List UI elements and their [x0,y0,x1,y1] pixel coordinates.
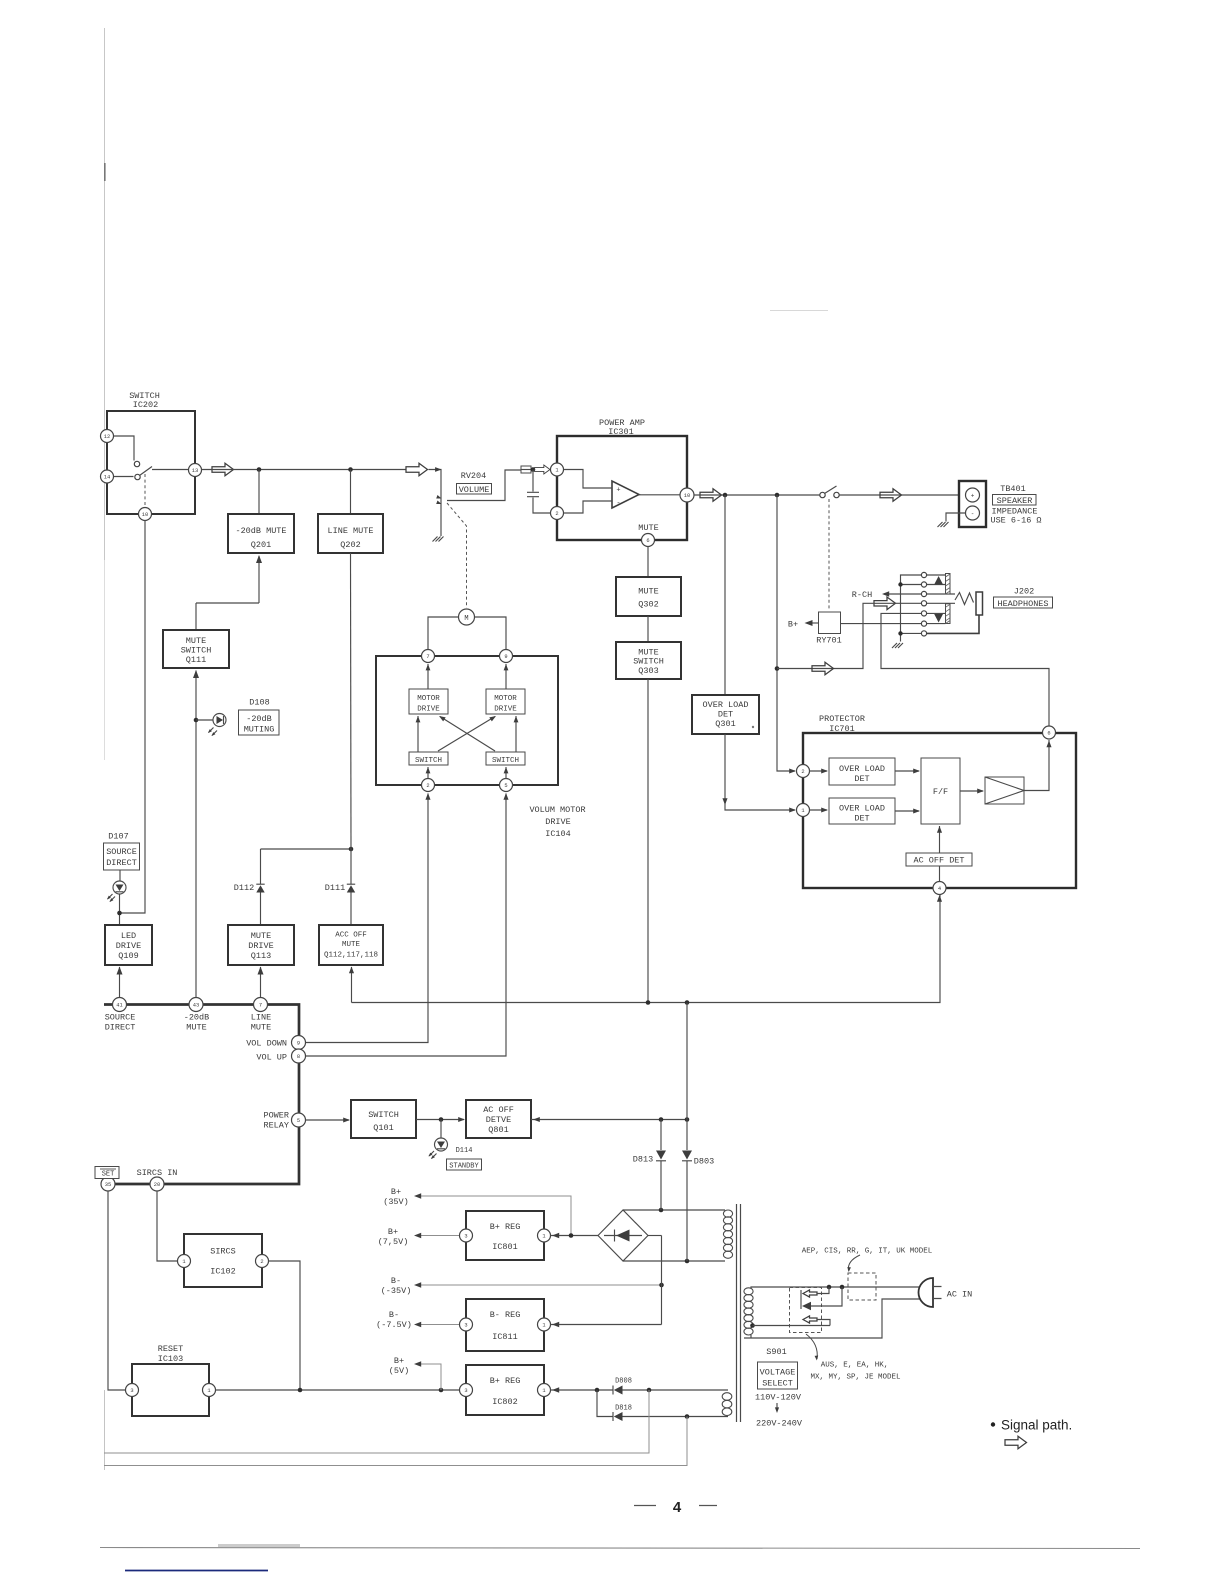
ACC OFF MUTE Q112,117,118 [319,925,383,965]
node selector arrow B [840,1285,845,1290]
wire bridge to IC801 pin 1 [551,1233,599,1238]
node at Q201 tap [257,467,262,472]
node 35 RESET [101,1177,115,1191]
page number [634,1499,717,1516]
wire node 20 to SIRCS [157,1191,178,1261]
VOLTAGE SELECT label [758,1362,798,1389]
wire node 7 up to Q113 [258,967,264,998]
node acc off / D803 [685,1000,690,1005]
svg-text:DRIVE: DRIVE [116,941,142,951]
volum motor drive IC104 label [529,805,585,839]
pin 6 [642,534,655,547]
svg-text:PROTECTOR: PROTECTOR [819,714,865,724]
svg-text:OVER LOAD: OVER LOAD [703,700,749,710]
node D803 [685,1117,690,1122]
svg-text:Q303: Q303 [638,666,658,676]
wire bridge bottom to transformer [623,1260,725,1262]
wire pin 6 to Q302 [647,547,649,578]
switch IC202 label [129,391,160,410]
arrowhead into protector pin 2 [789,768,796,773]
signal path arrow into headphone L contact [874,597,896,610]
SWITCH block R [486,752,525,765]
svg-text:Q201: Q201 [251,540,271,550]
B+ 5V tap [389,1356,441,1390]
svg-text:D813: D813 [633,1155,653,1165]
svg-text:MUTING: MUTING [244,725,275,735]
node 43 -20dB MUTE [184,998,210,1033]
svg-text:MUTE: MUTE [342,941,361,949]
wire IC202 pin 10 down to source-direct LED node [120,521,146,914]
svg-text:HEADPHONES: HEADPHONES [997,599,1048,609]
svg-text:3: 3 [464,1323,467,1329]
svg-text:SIRCS: SIRCS [210,1247,236,1257]
svg-text:1: 1 [801,808,804,814]
AUS model callout [806,1334,901,1382]
pin 3 [460,1229,473,1242]
svg-text:DIRECT: DIRECT [106,858,137,868]
node B+35 [569,1233,574,1238]
svg-text:6: 6 [646,538,649,544]
selector contact C (hollow) [803,1316,830,1326]
svg-text:10: 10 [684,493,690,499]
control bus [104,1005,299,1185]
wire IC802 pin1 to rectifier D808 [551,1387,729,1392]
svg-text:MUTE: MUTE [638,523,658,533]
signal path arrow after pin 10 [700,489,722,502]
node 7 LINE MUTE [251,998,271,1033]
MUTE SWITCH Q303 [616,642,681,679]
svg-text:MUTE: MUTE [186,1023,206,1033]
node to protector [775,493,780,498]
pin 1 [538,1318,551,1331]
svg-text:43: 43 [193,1003,199,1009]
pin 12 [101,430,114,443]
LED D108 [207,714,226,738]
svg-text:1: 1 [207,1388,210,1394]
svg-text:1: 1 [182,1259,185,1265]
svg-text:IC102: IC102 [210,1267,236,1277]
node D803 / bridge [685,1259,690,1264]
svg-text:1: 1 [542,1323,545,1329]
VOLUME label [457,484,492,495]
pin 1 [178,1255,191,1268]
svg-text:B+ REG: B+ REG [490,1376,521,1386]
svg-text:AC OFF DET: AC OFF DET [913,856,964,866]
svg-text:Q101: Q101 [373,1123,393,1133]
LED D107 [106,881,126,903]
signal path arrow before volume [406,463,428,476]
svg-text:RELAY: RELAY [263,1121,289,1131]
node to Q301 [723,493,728,498]
cross wire switch R to motor drive L [438,714,495,751]
svg-text:5: 5 [504,783,507,789]
svg-text:110V-120V: 110V-120V [755,1393,802,1403]
wires M to IC104 pins 7,9 [428,617,506,650]
transformer T901 core [737,1204,741,1422]
pin 10 [139,508,152,521]
wire pin 4 to F/F [937,826,942,882]
svg-text:B+: B+ [788,620,798,630]
svg-text:6: 6 [1047,731,1050,737]
svg-text:IC811: IC811 [492,1332,518,1342]
AC OFF DET block [906,853,972,866]
wire vol up to pin 5 [306,793,509,1056]
svg-text:DRIVE: DRIVE [417,706,440,714]
node B+5V/reset [439,1388,444,1393]
svg-text:20: 20 [154,1182,160,1188]
wire node to overload det Q301 [724,495,726,695]
svg-text:13: 13 [192,468,198,474]
node on line mute net [349,847,354,852]
wire LED to Q109 [119,894,121,925]
AC primary top wire [751,1287,920,1288]
B- 35V tap [381,1276,662,1296]
LED DRIVE Q109 [105,925,152,965]
wire node 35 to reset IC103 [108,1191,126,1390]
jack ground bus [901,575,922,642]
svg-text:9: 9 [504,654,507,660]
wire pin2 to op-amp - [564,501,613,513]
svg-text:3: 3 [130,1388,133,1394]
node selector arrow A [827,1285,832,1290]
small signal arrow into pin 1 [535,465,550,474]
svg-text:Q109: Q109 [118,951,138,961]
svg-text:STANDBY: STANDBY [449,1163,479,1171]
pin 9 [500,650,513,663]
pin 5 [500,779,513,792]
pin 2 [551,507,564,520]
pin 2 [797,765,810,778]
node D114 [439,1117,444,1122]
headphone jack J202 contacts [921,572,955,636]
speaker terminal TB401 [959,481,986,527]
svg-text:AUS, E, EA, HK,: AUS, E, EA, HK, [821,1362,889,1370]
SWITCH Q101 [351,1100,416,1138]
svg-text:-20dB: -20dB [184,1013,210,1023]
ground at TB401 [938,513,966,527]
RV204 wiper [436,470,521,506]
jack ground nodes [898,582,902,586]
svg-text:SWITCH: SWITCH [368,1110,399,1120]
diode D813 [633,1120,666,1211]
svg-text:S901: S901 [766,1347,786,1357]
svg-text:POWER: POWER [263,1111,289,1121]
svg-text:IC104: IC104 [545,829,571,839]
node 8 VOL UP [256,1049,305,1063]
svg-text:SOURCE: SOURCE [105,1013,136,1023]
svg-text:SWITCH: SWITCH [415,757,442,765]
svg-text:10: 10 [142,512,148,518]
svg-text:Q111: Q111 [186,655,206,665]
svg-text:MUTE: MUTE [638,587,658,597]
node 41 SOURCE DIRECT [105,998,136,1033]
svg-text:SWITCH: SWITCH [181,646,212,656]
SOURCE DIRECT label [104,843,140,870]
svg-text:41: 41 [116,1003,122,1009]
MUTE DRIVE Q113 [228,925,294,965]
wire node 5 to switch Q101 [306,1117,351,1122]
svg-text:1: 1 [542,1234,545,1240]
-20dB MUTE Q201 [228,514,294,553]
svg-text:5: 5 [297,1118,300,1124]
svg-text:VOL DOWN: VOL DOWN [246,1039,287,1049]
pin 10 [680,488,694,502]
SIRCS IC102 [184,1234,262,1287]
MUTE SWITCH Q111 [163,630,229,668]
svg-text:220V-240V: 220V-240V [756,1419,803,1429]
svg-text:D107: D107 [108,832,128,842]
svg-text:4: 4 [938,886,941,892]
wire bridge top to transformer [623,1209,725,1211]
pin 1 [551,463,564,476]
svg-text:Q301: Q301 [715,719,735,729]
svg-text:OVER LOAD: OVER LOAD [839,804,885,814]
svg-text:DET: DET [718,710,733,720]
node for LED D108 [194,718,199,723]
svg-text:1: 1 [542,1388,545,1394]
svg-text:+: + [616,487,620,495]
diode D818 branch [597,1390,728,1421]
svg-text:2: 2 [426,783,429,789]
power amp IC301 label [599,418,645,437]
B+ REG IC802 [466,1365,544,1415]
wire to D108 [196,719,213,721]
pin 1 [538,1384,551,1397]
B+ 7.5V tap [378,1227,460,1247]
front panel feed wires [104,1390,649,1453]
svg-text:Q112,117,118: Q112,117,118 [324,952,378,960]
wire driver to pin 6 [1024,740,1052,791]
pin 3 [126,1384,139,1397]
pin 3 [460,1384,473,1397]
svg-text:IC802: IC802 [492,1397,518,1407]
svg-text:1: 1 [555,468,558,474]
selector common bar [800,1290,802,1309]
svg-text:MOTOR: MOTOR [417,695,440,703]
svg-text:Q801: Q801 [488,1125,508,1135]
svg-text:8: 8 [297,1054,300,1060]
svg-text:DETVE: DETVE [486,1115,512,1125]
svg-text:(35V): (35V) [383,1197,409,1207]
pin 6 [1043,726,1056,739]
B+ 35V tap [383,1187,571,1236]
node at Q202 tap [348,467,353,472]
OVER LOAD DET block 2 [829,798,895,824]
wire bridge minus to IC811 pin 1 [551,1236,662,1328]
node input cap [531,467,536,472]
svg-text:DET: DET [854,814,869,824]
node 20 SIRCS IN [137,1168,178,1191]
svg-text:VOL UP: VOL UP [256,1053,287,1063]
main signal wire from pin 13 to volume [202,469,407,471]
node headphone feed [775,666,780,671]
svg-text:B+: B+ [394,1356,404,1366]
B- 7.5V tap [376,1310,459,1330]
wire contact 5 to protector pin 6 [881,613,1049,726]
reset net wire [216,1389,460,1391]
svg-text:Q113: Q113 [251,951,271,961]
STANDBY label [447,1159,482,1171]
relay contact S-RY701 [820,486,839,498]
diode D112 [256,849,264,925]
RESET label (cut at page edge) [95,1167,119,1179]
wire label to LED D107 [119,870,121,881]
wire node 41 up to Q109 [117,967,123,998]
svg-text:USE 6-16 Ω: USE 6-16 Ω [990,516,1041,526]
wire Q101 to Q801 [416,1117,465,1122]
svg-text:DRIVE: DRIVE [248,941,274,951]
bridge rectifier D801 [598,1210,648,1261]
svg-text:B+ REG: B+ REG [490,1222,521,1232]
svg-text:D818: D818 [615,1405,632,1413]
svg-text:-: - [616,500,620,508]
svg-text:Signal path.: Signal path. [1001,1418,1072,1433]
pin 14 [101,470,114,483]
svg-text:2: 2 [555,511,558,517]
svg-text:DRIVE: DRIVE [545,817,571,827]
svg-text:SWITCH: SWITCH [633,657,664,667]
svg-text:MOTOR: MOTOR [494,695,517,703]
svg-text:+: + [971,493,975,500]
diode D808 [613,1378,632,1395]
svg-text:R-CH: R-CH [852,590,872,600]
node acc off / Q303 [646,1000,651,1005]
svg-text:B+: B+ [388,1227,398,1237]
wire into volume track [429,467,442,536]
wire F/F to driver [960,788,984,793]
svg-text:(-35V): (-35V) [381,1286,412,1296]
wire switch R to motor drive R [514,716,519,752]
wire RY701 to jack contact 6 [841,623,922,625]
wire bridge right vertex [648,1235,662,1237]
svg-text:D108: D108 [249,698,269,708]
svg-text:LINE: LINE [251,1013,271,1023]
wire det1 to F/F [895,768,920,773]
svg-text:DIRECT: DIRECT [105,1023,136,1033]
pin 1 [797,804,810,817]
headphone plug symbol [927,592,983,633]
AEP model callout [802,1248,933,1273]
wire pin2 to switch L [426,767,431,779]
OVER LOAD DET block 1 [829,758,895,785]
series element on input of IC301 [521,466,531,473]
svg-text:VOLUM MOTOR: VOLUM MOTOR [529,805,585,815]
node D813 / bridge [659,1208,664,1213]
svg-text:(7,5V): (7,5V) [378,1237,409,1247]
svg-text:SWITCH: SWITCH [492,757,519,765]
svg-text:DRIVE: DRIVE [494,706,517,714]
svg-text:RESET: RESET [158,1344,184,1354]
svg-text:2: 2 [801,769,804,775]
wire pin 2 to reset net [269,1261,301,1390]
svg-text:SOURCE: SOURCE [106,847,137,857]
voltage select arrow [775,1403,779,1413]
wire pin2 to overload det 1 [810,768,829,773]
svg-text:SIRCS IN: SIRCS IN [137,1168,178,1178]
protector IC701 label [819,714,865,734]
MOTOR DRIVE block L [409,689,448,714]
svg-text:D808: D808 [615,1378,632,1386]
dashed motor link from wiper [447,503,467,608]
jack insulator bars [946,574,951,624]
wire pin5 to switch R [504,767,509,779]
dashed link relay contact to RY701 [828,499,830,611]
wire det2 to F/F [895,808,920,813]
wire node to LED D114 [440,1120,442,1139]
wire speaker line to headphone contact 4 [777,603,921,668]
motor M [459,609,475,625]
LINE MUTE Q202 [318,514,383,553]
svg-text:SELECT: SELECT [762,1379,793,1389]
svg-text:SET: SET [102,1171,115,1179]
node 9 VOL DOWN [246,1036,305,1050]
svg-text:3: 3 [464,1388,467,1394]
svg-text:12: 12 [104,434,110,440]
transformer primary winding [744,1288,753,1335]
jack ground symbol [892,643,903,648]
wire to line mute [350,470,352,515]
svg-text:-20dB: -20dB [246,714,272,724]
svg-text:AEP, CIS, RR, G, IT, UK MODEL: AEP, CIS, RR, G, IT, UK MODEL [802,1248,933,1256]
wire switch L to motor drive L [416,716,421,752]
svg-text:7: 7 [426,654,429,660]
wire motor drive L to pin 7 [426,664,431,689]
svg-text:7: 7 [259,1003,262,1009]
pin 1 [203,1384,216,1397]
AC primary bottom wire [744,1299,921,1338]
relay RY701 [816,612,842,646]
node D813 [659,1117,664,1122]
svg-text:B- REG: B- REG [490,1310,521,1320]
svg-text:-20dB MUTE: -20dB MUTE [235,526,286,536]
svg-text:OVER LOAD: OVER LOAD [839,764,885,774]
svg-text:Q302: Q302 [638,600,658,610]
svg-text:RV204: RV204 [461,471,487,481]
switch contacts inside IC202 [114,436,189,480]
svg-text:MX, MY, SP, JE MODEL: MX, MY, SP, JE MODEL [810,1374,901,1382]
svg-text:SPEAKER: SPEAKER [997,496,1033,506]
voltage selector S901 dashed box [790,1288,822,1333]
svg-text:4: 4 [673,1499,682,1516]
pin 2 [256,1255,269,1268]
node 5 POWER RELAY [263,1111,305,1131]
AC OFF DETVE Q801 [466,1100,531,1138]
speaker output wire [694,494,959,496]
wire node down to protector pin 2 [777,495,795,771]
wire Q111 down to node 43 (mute drive line) [193,670,199,1004]
node B-35 [659,1283,664,1288]
selector contact A (hollow) [803,1287,829,1297]
reset IC103 box [132,1364,209,1416]
svg-text:F/F: F/F [933,787,948,797]
signal path arrow after pin 13 [212,463,234,476]
svg-text:3: 3 [464,1234,467,1240]
B+ REG IC801 [466,1211,544,1260]
B+ feed of RY701 [788,620,819,630]
svg-text:IC202: IC202 [133,400,159,410]
wire op-amp to pin10 [639,494,680,496]
svg-text:IC801: IC801 [492,1242,518,1252]
node sircs/reset [298,1388,303,1393]
switch IC202 box [107,411,195,514]
wire vol down to pin 2 [306,793,431,1043]
MUTE Q302 [616,577,681,616]
svg-text:D803: D803 [694,1157,714,1167]
R-CH stub [852,590,922,600]
svg-text:(5V): (5V) [389,1366,409,1376]
RESET IC103 label [158,1344,184,1364]
svg-text:35: 35 [105,1182,111,1188]
